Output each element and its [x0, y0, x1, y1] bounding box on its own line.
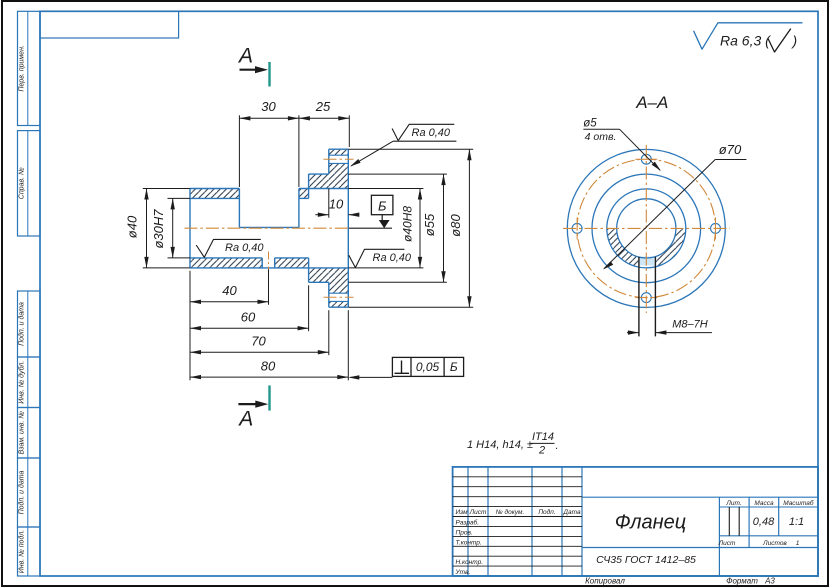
dimension ø40H8 extension lines	[348, 188, 423, 190]
svg-text:Ra 6,3 (: Ra 6,3 (	[720, 32, 771, 48]
bore ø30H7 bottom edge	[190, 257, 262, 259]
perpendicularity tolerance frame 0.05 Б	[350, 376, 392, 378]
top bolt hole centerline	[324, 158, 354, 160]
side box Инв. № дубл.	[18, 357, 41, 408]
svg-text:А: А	[237, 408, 253, 431]
svg-text:30: 30	[261, 99, 276, 114]
svg-text:Подп.: Подп.	[538, 508, 555, 516]
main axis centerline	[184, 227, 349, 229]
hub outer diameter ø40 bottom edge	[190, 267, 348, 269]
svg-text:Формат: Формат	[726, 577, 758, 586]
dimension ø40	[146, 189, 148, 268]
tapped hole M8 slot lines	[638, 257, 640, 337]
dimension ø30H7 extension lines	[168, 197, 191, 199]
svg-text:Ra 0,40: Ra 0,40	[373, 252, 412, 264]
svg-text:Масштаб: Масштаб	[783, 499, 814, 507]
svg-text:ø40: ø40	[125, 215, 140, 238]
A-A horizontal centerline	[563, 227, 730, 229]
dimension 30	[239, 117, 299, 119]
dimension 60 extension line	[308, 285, 310, 331]
dimension ø55	[443, 174, 445, 282]
svg-text:70: 70	[251, 334, 266, 349]
svg-text:ø80: ø80	[448, 214, 463, 237]
svg-text:Копировал: Копировал	[585, 577, 625, 586]
svg-text:25: 25	[315, 99, 331, 114]
flange outer circle ø80	[567, 149, 725, 307]
svg-text:1:1: 1:1	[789, 516, 804, 528]
roughness mark Ra 0,40 (bore ø30H7)	[197, 239, 261, 257]
dimension 30 and 25 extension lines	[238, 115, 240, 187]
svg-text:Ra 0,40: Ra 0,40	[225, 242, 264, 254]
boss circle ø55	[592, 174, 701, 283]
svg-text:Лист: Лист	[469, 509, 487, 516]
boss ø55 left face and bore step	[308, 174, 310, 198]
datum symbol Б	[371, 195, 393, 214]
bore circle ø30	[617, 199, 676, 258]
svg-text:Справ. №: Справ. №	[19, 167, 26, 199]
svg-text:80: 80	[261, 359, 276, 374]
svg-text:Изм: Изм	[455, 509, 468, 516]
section cut mark A (top)	[268, 62, 270, 87]
svg-text:Лит.: Лит.	[725, 500, 741, 507]
general roughness mark Ra 6,3	[694, 23, 802, 49]
M8 hole centerline	[268, 252, 270, 270]
svg-text:IT14: IT14	[532, 431, 554, 443]
svg-text:.: .	[556, 440, 559, 452]
dimension 70	[190, 351, 329, 353]
svg-text:2: 2	[538, 445, 545, 457]
svg-text:Лист: Лист	[718, 540, 736, 547]
side box Инв. № подл.	[18, 527, 41, 576]
boss ø55 top and bottom edges	[309, 173, 329, 175]
roughness mark Ra 0,40 (bore ø40H8)	[349, 249, 404, 267]
datum axis line	[349, 227, 392, 229]
title block	[453, 467, 818, 576]
dimension M8-7H	[627, 332, 639, 334]
svg-text:А: А	[237, 45, 253, 68]
svg-text:Разраб.: Разраб.	[456, 519, 480, 527]
svg-text:4 отв.: 4 отв.	[585, 131, 617, 143]
svg-text:СЧ35 ГОСТ 1412–85: СЧ35 ГОСТ 1412–85	[596, 554, 696, 566]
section hatching boss bottom	[309, 268, 329, 282]
bolt circle ø70	[577, 159, 715, 297]
svg-text:Б: Б	[450, 360, 458, 374]
section A-A hatched ring	[607, 228, 686, 268]
bottom bolt hole centerline	[324, 296, 354, 298]
svg-text:Подп. и дата: Подп. и дата	[18, 302, 26, 346]
bolt hole crosshair ticks	[635, 158, 657, 160]
svg-text:Взам. инв. №: Взам. инв. №	[19, 411, 26, 455]
svg-text:Листов: Листов	[762, 540, 787, 547]
svg-text:Дата: Дата	[562, 509, 581, 516]
section hatching flange top	[329, 149, 349, 155]
svg-text:ø70: ø70	[719, 142, 742, 157]
svg-text:ø5: ø5	[583, 118, 597, 130]
svg-text:Масса: Масса	[754, 500, 774, 507]
svg-text:1 Н14, h14, ±: 1 Н14, h14, ±	[467, 439, 533, 451]
flange body outline: left face	[189, 189, 191, 268]
svg-text:0,48: 0,48	[753, 516, 775, 528]
svg-text:Т.контр.: Т.контр.	[456, 540, 482, 547]
bore ø30H7 top edge	[190, 197, 239, 199]
section hatching boss	[309, 174, 329, 188]
svg-text:Подп. и дата: Подп. и дата	[18, 470, 26, 514]
svg-text:№ докум.: № докум.	[496, 508, 525, 516]
svg-text:Фланец: Фланец	[615, 512, 686, 534]
dimension 80	[190, 376, 348, 378]
svg-text:Пров.: Пров.	[456, 530, 473, 537]
side box Перв. примен.	[18, 11, 41, 125]
bolt hole ø5 top (section)	[329, 154, 349, 156]
section hatching hub walls	[190, 189, 239, 199]
hub outer diameter ø40 top edge	[190, 188, 239, 190]
dimension ø80	[468, 149, 470, 307]
svg-text:1: 1	[796, 540, 800, 547]
hub circle ø40	[607, 189, 686, 268]
dimension 40	[190, 301, 269, 303]
svg-text:Перв. примен.: Перв. примен.	[19, 45, 26, 92]
dimension ø30H7	[172, 198, 174, 258]
roughness mark Ra 0,40 (flange hole)	[392, 124, 454, 140]
svg-text:Б: Б	[378, 199, 387, 214]
dimension ø40H8	[419, 189, 421, 268]
A-A vertical centerline	[645, 145, 647, 313]
dimension 25	[299, 117, 349, 119]
bolt holes ø5 (4x)	[641, 154, 651, 164]
section arrow A (top)	[240, 69, 260, 71]
svg-text:М8–7Н: М8–7Н	[672, 318, 708, 330]
svg-text:Инв. № подл.: Инв. № подл.	[18, 530, 26, 573]
svg-text:Ra 0,40: Ra 0,40	[412, 127, 451, 139]
side box Взам. инв. №	[18, 408, 41, 459]
dimension ø55 extension lines	[348, 173, 447, 175]
flange right face	[347, 149, 349, 307]
side box Подп. и дата (lower)	[18, 458, 41, 527]
svg-text:А–А: А–А	[635, 93, 668, 112]
svg-text:10: 10	[329, 197, 344, 212]
svg-text:ø40H8: ø40H8	[401, 206, 415, 242]
shared left extension line	[189, 271, 191, 381]
svg-text:0,05: 0,05	[416, 360, 440, 374]
svg-text:40: 40	[222, 283, 237, 298]
svg-text:Н.контр.: Н.контр.	[456, 559, 484, 566]
svg-text:Инв. № дубл.: Инв. № дубл.	[18, 361, 26, 404]
svg-text:Утв.: Утв.	[455, 569, 471, 576]
svg-text:ø55: ø55	[422, 213, 437, 236]
section cut mark A (bottom)	[268, 385, 270, 410]
bolt hole ø5 bottom (section)	[329, 292, 349, 294]
vertical port ø30 walls	[238, 189, 240, 228]
side box Подп. и дата (upper)	[18, 291, 41, 357]
svg-text:А3: А3	[764, 577, 775, 586]
side box Справ. №	[18, 131, 41, 236]
dimension ø80 extension lines	[348, 148, 473, 150]
svg-text:ø30H7: ø30H7	[151, 209, 166, 249]
port-bore intersection line	[239, 226, 299, 228]
tapped hole M8 walls	[261, 258, 263, 268]
dimension 10 extension line	[328, 189, 330, 218]
section hatching flange bottom	[329, 268, 349, 293]
flange disk ø80 top and bottom edges	[329, 148, 349, 150]
dimension 10	[315, 214, 329, 216]
svg-text:60: 60	[241, 310, 256, 325]
dimension 40 extension line	[268, 269, 270, 305]
dimension 70 extension line	[328, 310, 330, 355]
section arrow A (bottom)	[238, 403, 259, 405]
dimension 80 extension line	[347, 310, 349, 380]
dimension 60	[190, 327, 309, 329]
section hatching hub bottom	[190, 258, 262, 268]
dimension ø40 extension lines	[143, 188, 190, 190]
top-left designation box	[40, 11, 179, 38]
flange disk left face	[328, 149, 330, 174]
